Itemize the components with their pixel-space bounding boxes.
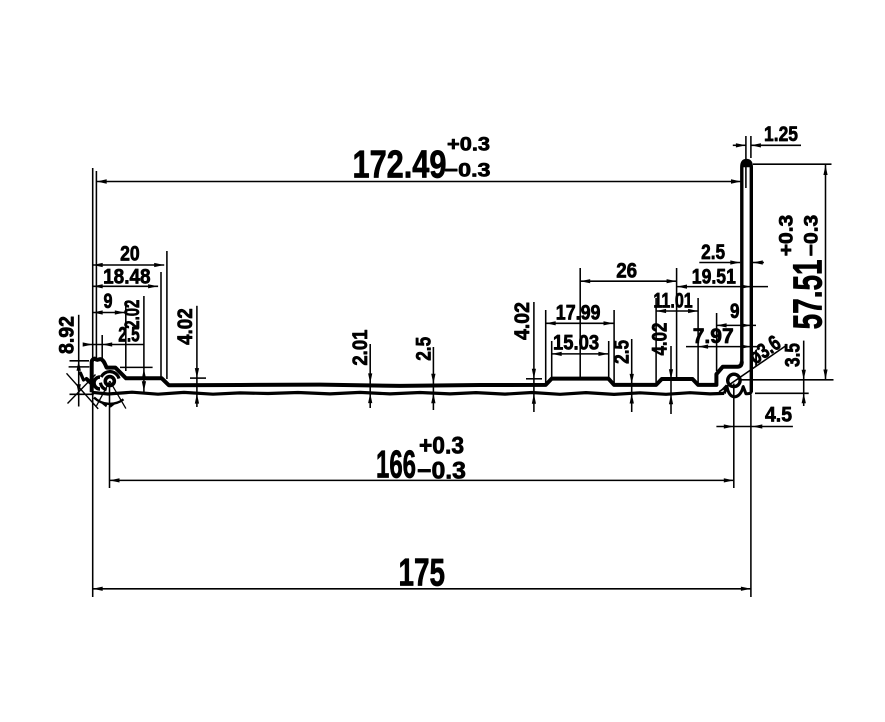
svg-text:4.02: 4.02: [510, 302, 534, 340]
extension line hole center right horizontal: [740, 379, 834, 381]
svg-text:−0.3: −0.3: [417, 458, 466, 485]
dimension 26: [580, 259, 676, 284]
svg-text:175: 175: [399, 552, 446, 595]
extension line 3.5 bottom: [755, 392, 809, 394]
tick ledge level: [120, 366, 153, 368]
left screw boss outer wall top arc: [101, 372, 119, 379]
dimension 166 +0.3/-0.3: [110, 433, 734, 487]
tick ledge left: [69, 366, 90, 368]
dimension 2.01 (vertical): [348, 330, 372, 408]
swing arc below left hole: [94, 398, 124, 408]
section X mark at left end: [67, 373, 99, 409]
extension line 172.49 left (x=96.4): [95, 171, 97, 358]
dimension 4.02 mid (vertical): [510, 302, 536, 412]
dimension 4.02 right (vertical): [647, 322, 673, 414]
svg-text:2.5: 2.5: [701, 240, 725, 264]
svg-text:18.48: 18.48: [103, 265, 151, 289]
svg-text:20: 20: [120, 242, 140, 266]
dimension 4.02 left (vertical): [173, 306, 199, 407]
svg-text:+0.3: +0.3: [447, 134, 490, 156]
profile bottom-right corner (notches around screw boss and wall foot): [724, 387, 751, 397]
extension line right overall (x=750.9): [750, 395, 752, 598]
svg-text:4.02: 4.02: [173, 308, 197, 345]
svg-text:9: 9: [104, 289, 113, 313]
dimension 57.51 +0.3/-0.3 (vertical): [775, 165, 830, 380]
svg-text:−0.3: −0.3: [800, 215, 822, 257]
extension line 11.01 right: [697, 298, 699, 383]
dimension 4.5: [716, 403, 793, 429]
extension line left hole center (x=109.5): [109, 383, 111, 488]
tick 8.92 top: [70, 360, 90, 362]
extension line right hole center vertical: [733, 384, 735, 489]
left screw boss outer wall lower-left arc: [100, 383, 106, 390]
svg-text:19.51: 19.51: [692, 265, 736, 289]
svg-text:7.97: 7.97: [693, 324, 734, 348]
dimension 11.01: [653, 289, 698, 314]
dimension 2.5 right (vertical): [609, 339, 634, 412]
dimension 9 right: [717, 299, 756, 328]
dimension 20: [93, 242, 165, 268]
svg-text:26: 26: [616, 259, 637, 283]
tick pad level 4.02 mid: [526, 378, 542, 380]
dimension 8.92 (vertical): [55, 315, 81, 407]
dimension 19.51: [677, 265, 768, 289]
extension line 1.25 left: [745, 136, 747, 188]
svg-text:15.03: 15.03: [553, 331, 599, 355]
extension line 17.99 right: [613, 310, 615, 383]
svg-text:4.5: 4.5: [765, 403, 792, 427]
dimension 2.02 (vertical): [120, 296, 146, 392]
svg-text:172.49: 172.49: [353, 144, 447, 187]
svg-text:166: 166: [376, 444, 416, 487]
dimension 15.03: [552, 331, 609, 357]
svg-text:8.92: 8.92: [55, 316, 79, 354]
extension line 11.01 left: [655, 298, 657, 383]
svg-text:17.99: 17.99: [556, 301, 601, 325]
leader dia 3.6 (right hole): [719, 331, 786, 392]
svg-text:4.02: 4.02: [647, 322, 671, 355]
svg-text:57.51: 57.51: [785, 259, 831, 329]
dimension 175 (overall width): [93, 552, 751, 595]
svg-text:+0.3: +0.3: [775, 215, 797, 257]
svg-text:+0.3: +0.3: [419, 433, 464, 460]
extension line 20 right: [166, 251, 168, 379]
svg-text:2.02: 2.02: [120, 300, 144, 329]
profile outline (sheet top surface and pads): [92, 359, 742, 393]
svg-text:−0.3: −0.3: [445, 160, 491, 182]
extension line 26 right / 19.51 left: [676, 268, 678, 378]
dimension 2.5 wall thickness: [699, 240, 764, 265]
extension line 18.48 right: [160, 272, 162, 378]
dimension 2.5 left: [83, 323, 144, 347]
wall tip cap (filled nub): [742, 160, 751, 167]
right screw boss hole (dia 3.6): [728, 374, 740, 386]
dimension 172.49 +0.3/-0.3 (top width): [97, 134, 741, 187]
dimension 7.97: [686, 324, 757, 349]
dimension 9 left: [93, 289, 125, 315]
extension line 9R left: [716, 313, 718, 371]
svg-text:9: 9: [730, 299, 740, 323]
extension line 15.03 left: [551, 341, 553, 377]
extension line left overall (x=92.7): [92, 168, 94, 597]
radial lines from left hole: [97, 381, 126, 409]
extension line 17.99 left: [545, 310, 547, 383]
extension line 26 left: [579, 268, 581, 378]
profile bottom edge (wavy): [92, 392, 725, 394]
dimension 2.5 mid (vertical): [412, 337, 436, 410]
extension line 57.51 top: [753, 163, 832, 165]
svg-text:2.01: 2.01: [348, 330, 372, 366]
extension line 15.03 right: [608, 341, 610, 377]
svg-text:2.5: 2.5: [412, 337, 436, 361]
tick 8.92 bottom: [70, 393, 94, 395]
dimension 18.48: [93, 265, 158, 289]
dimension 1.25 (wall tip): [733, 122, 801, 148]
svg-text:2.5: 2.5: [609, 340, 633, 364]
dimension 17.99: [546, 301, 614, 326]
tick pad level 4.02 left: [190, 377, 206, 379]
dimension 3.5 (vertical): [780, 341, 806, 406]
extension line 9 right: [125, 301, 127, 371]
left screw boss hole: [105, 377, 114, 386]
extension line 2.5 left-dim right: [101, 335, 103, 361]
svg-text:1.25: 1.25: [764, 122, 798, 146]
left screw boss lip (crescent): [81, 373, 101, 389]
extension line 1.25 right: [750, 136, 752, 158]
svg-text:11.01: 11.01: [653, 289, 692, 313]
profile right wall: [742, 160, 752, 392]
